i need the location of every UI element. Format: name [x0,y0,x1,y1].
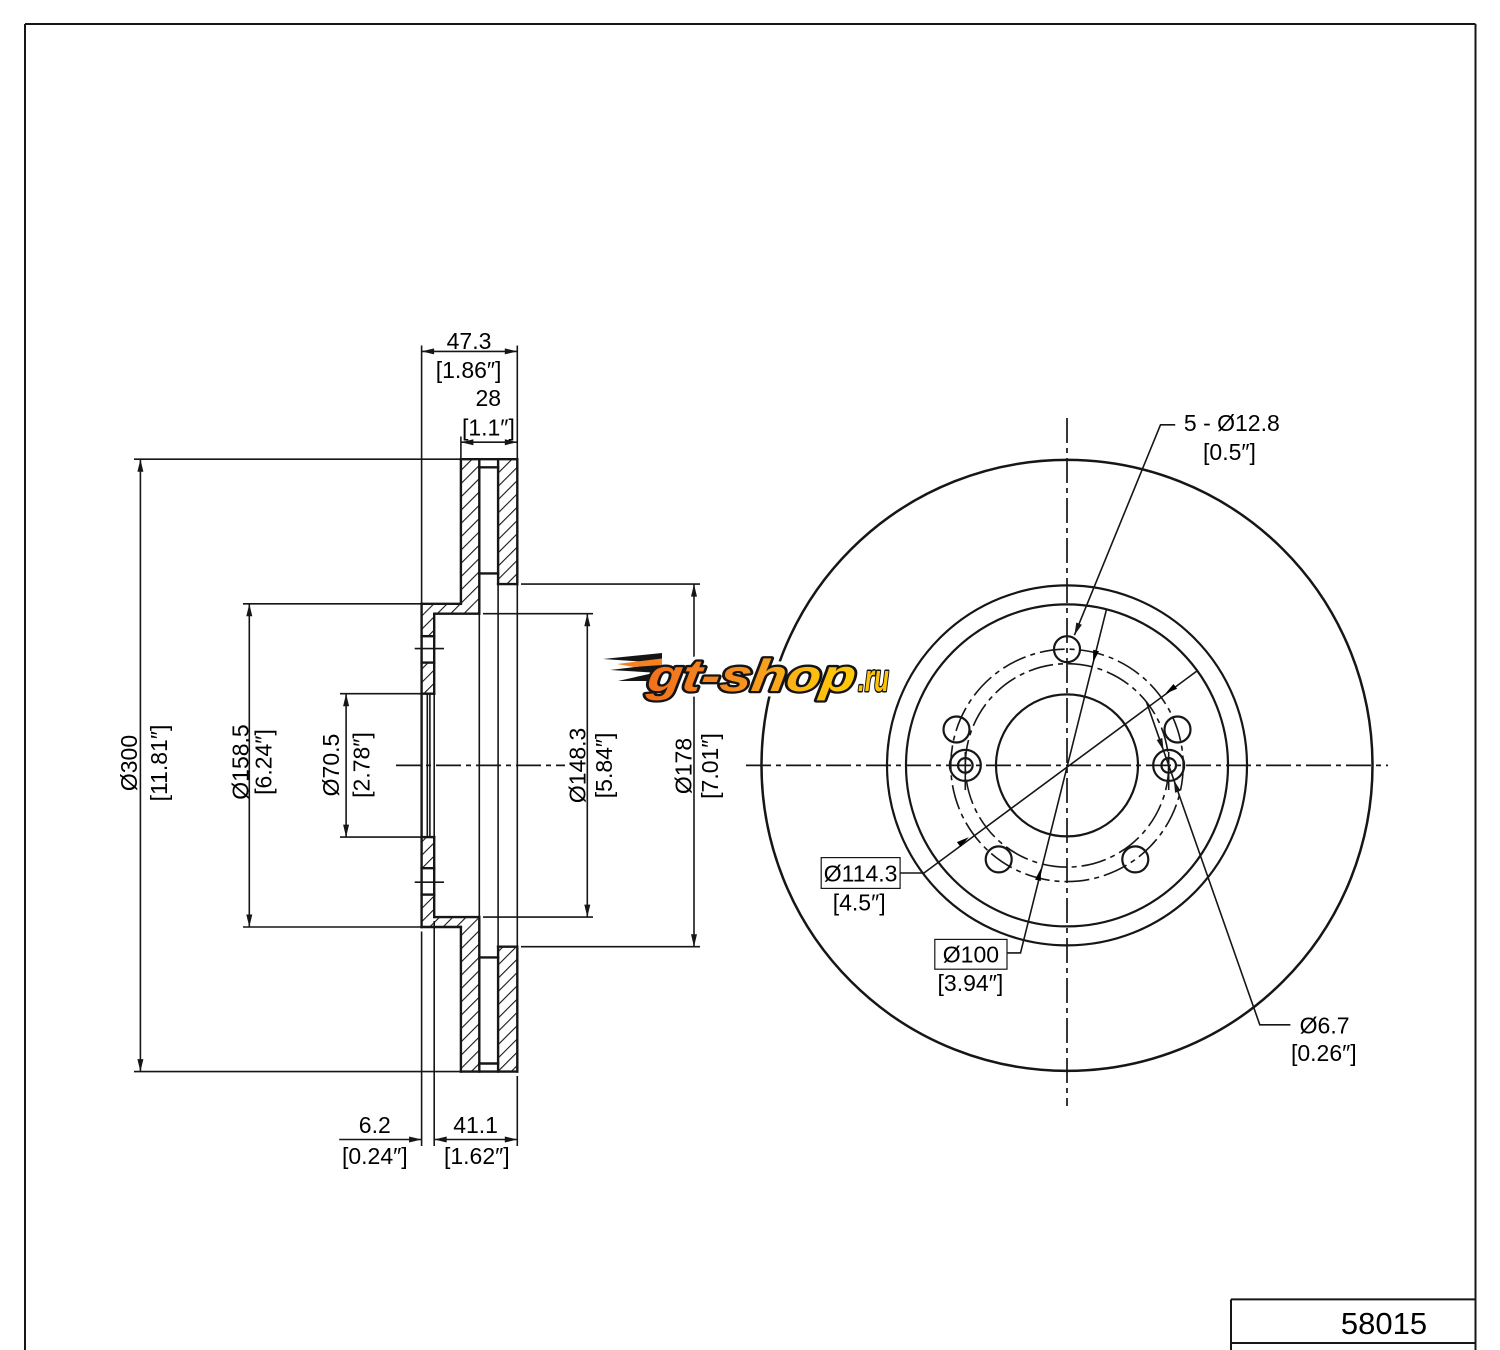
ext line O70.5 top [340,693,422,695]
arrow O70.5 bottom [343,825,349,838]
bolt hole centerline tick (bottom) [415,881,444,883]
arrow O158.5 top [246,604,252,617]
arrow O158.5 bottom [246,915,252,928]
svg-text:[3.94″]: [3.94″] [938,970,1004,996]
arrow O178 bottom [691,934,697,947]
svg-text:Ø178: Ø178 [670,738,696,794]
visible edge: right plate face [516,584,518,947]
arrow leader 5-O12.8 [1074,623,1082,636]
ext line O148.3 bottom [483,916,593,918]
bolt hole lower edge (top) [422,661,435,663]
visible edge: bore chamfer right [429,694,431,837]
arrow 28 right [505,439,518,445]
svg-text:5 - Ø12.8: 5 - Ø12.8 [1184,410,1280,436]
visible edge: vent right wall [497,584,499,947]
ext line O300 top [134,458,461,460]
black speed streaks [603,653,662,681]
svg-text:[7.01″]: [7.01″] [697,733,723,799]
arrow O114.3 lower [957,837,969,847]
svg-text:.ru: .ru [858,658,889,700]
vertical centerline [1066,418,1068,1106]
dim line O158.5 [248,604,250,927]
left plate inner face (bottom) [478,917,480,1072]
hat flange top face [422,603,461,605]
center bore O70.5 [996,694,1138,836]
vent outer edge line (bottom) [479,1062,498,1064]
bolt hole centerline tick (top) [415,648,444,650]
section hatching: hub wall above bolt hole (bottom) [422,895,435,918]
svg-text:gt-shop: gt-shop [643,650,859,701]
circle O158.5 [906,604,1228,926]
arrow O300 bottom [137,1059,143,1072]
bore upper edge [422,693,435,695]
svg-text:[0.26″]: [0.26″] [1291,1040,1357,1066]
svg-text:Ø114.3: Ø114.3 [824,860,898,886]
bolt hole upper edge (top) [422,635,435,637]
section hatching: left friction plate (top) [461,459,479,604]
ext line O178 bottom [521,946,700,948]
small hole left O6.7 counterbore [950,750,981,781]
bolt hole top (90deg) [1054,636,1080,662]
bolt hole upper edge (bottom) [422,893,435,895]
white halo [603,650,889,701]
interior visible edges [427,584,517,947]
svg-text:Ø148.3: Ø148.3 [565,728,591,803]
vent floor (top) [479,572,498,574]
right plate inner face (top) [497,459,499,584]
vent outer edge line (top) [479,466,498,468]
leader O6.7 [1146,702,1290,1025]
svg-text:Ø6.7: Ø6.7 [1300,1012,1350,1038]
arrow 47.3 left [422,348,435,354]
ext line 41.1 right [516,1076,518,1146]
svg-text:[0.24″]: [0.24″] [342,1143,408,1169]
outer diameter edge (top) [461,458,517,460]
dimension lines [140,351,694,1139]
ext line O178 top [521,583,700,585]
flame orange wedge [617,659,662,668]
svg-text:[0.5″]: [0.5″] [1203,439,1256,465]
dimension texts [116,328,723,1169]
arrowheads [137,348,697,1142]
ext line 6.2 right / 41.1 left [433,921,435,1146]
leader 5-O12.8 [1074,425,1175,635]
hat flange bottom face [422,926,461,928]
right plate inner edge (top) [498,583,517,585]
arrow O114.3 upper [1165,684,1177,694]
svg-text:6.2: 6.2 [359,1112,391,1138]
right plate inner edge (bottom) [498,946,517,948]
arrow O300 top [137,459,143,472]
arrow 47.3 right [505,348,518,354]
section hatching: hat skirt band (bottom) [422,917,480,927]
dimension line O114.3 diagonal [900,671,1197,873]
arrow O100 upper [1093,650,1099,663]
arrow O6.7 [1174,780,1181,793]
section hatching: right friction plate (bottom) [498,947,517,1072]
extension lines [134,346,700,1147]
bolt hole 18deg [1165,717,1191,743]
svg-text:[5.84″]: [5.84″] [591,733,617,799]
dim line O148.3 [586,614,588,917]
arrow O6.7 upper [1157,738,1164,751]
bolt hole 306deg [1122,846,1148,872]
section hatching: hub wall below bolt hole (top) [422,663,435,694]
bolt hole 234deg [986,846,1012,872]
arrow 28 left [461,439,474,445]
dim line 28 [461,441,517,443]
svg-text:Ø300: Ø300 [116,735,142,791]
ext line O148.3 top [483,613,593,615]
svg-text:Ø70.5: Ø70.5 [318,734,344,797]
centerline of section [396,764,565,766]
svg-text:[4.5″]: [4.5″] [833,889,886,915]
section outline top half [422,459,518,1071]
arrow 6.2 (outside, pointing right) [409,1137,422,1143]
outer circle O300 [762,460,1373,1071]
section hatching: hat skirt band (top) [422,604,480,614]
arrow 41.1 left [434,1137,447,1143]
arrow O100 lower [1035,868,1041,881]
svg-text:[11.81″]: [11.81″] [146,725,172,802]
dim line O178 [693,584,695,947]
arrow O178 top [691,584,697,597]
dim line 41.1 [434,1139,517,1141]
ext line 47.3 left [421,346,423,604]
ext line 6.2 left [421,932,423,1147]
arrow O70.5 top [343,694,349,707]
circle O100 dash-dot [965,664,1168,867]
watermark logo gt-shop.ru [603,650,889,701]
ext line 47.3/28 right [516,346,518,460]
visible edge: skirt inner radius [478,614,480,917]
left plate outer face (top) [460,459,462,604]
outer diameter edge (bottom) [461,1070,517,1072]
horizontal centerline [746,764,1388,766]
vent floor (bottom) [479,956,498,958]
ext line O158.5 top [243,603,422,605]
hat skirt underside (bottom) [434,916,479,918]
svg-text:58015: 58015 [1341,1306,1427,1341]
hat wall inner face (top) [433,614,435,694]
circle O178 hat outer [887,585,1247,945]
dim line O300 [139,459,141,1071]
ext line O158.5 bottom [243,926,422,928]
section hatching: hub wall above bolt hole (top) [422,614,435,637]
bolt circle O114.3 dash-dot [951,649,1183,881]
small hole left tick [964,752,966,790]
dimension line O100 diagonal [1007,609,1107,953]
svg-text:Ø100: Ø100 [943,942,999,968]
small hole right tick [1168,752,1170,790]
svg-text:[2.78″]: [2.78″] [349,732,375,798]
section hatching: right friction plate (top) [498,459,517,584]
ext line O300 bottom [134,1071,461,1073]
small hole right O6.7 counterbore [1153,750,1184,781]
left plate inner face / vent wall (top) [478,459,480,614]
svg-text:47.3: 47.3 [447,328,492,354]
dim line 6.2 [339,1139,421,1141]
bore lower edge [422,836,435,838]
arrow 41.1 right [505,1137,518,1143]
bolt hole lower edge (bottom) [422,867,435,869]
ext line O70.5 bottom [340,836,422,838]
svg-text:41.1: 41.1 [453,1112,498,1138]
ext line 28 left [460,437,462,460]
label box O100 [935,939,1007,969]
title block [1231,1299,1476,1350]
hat skirt underside (top) [434,613,479,615]
arrow O148.3 bottom [584,905,590,918]
label box O114.3 [821,858,900,889]
svg-text:28: 28 [476,385,502,411]
svg-text:Ø158.5: Ø158.5 [227,724,253,799]
dim line O70.5 [345,694,347,837]
section hatching: hub wall below bolt hole (bottom) [422,837,435,868]
left plate outer face (bottom) [460,927,462,1072]
bolt hole 162deg [944,717,970,743]
right plate outer face (top) [516,459,518,584]
svg-text:[1.1″]: [1.1″] [462,414,515,440]
svg-text:[6.24″]: [6.24″] [251,729,277,795]
right plate outer face (bottom) [516,947,518,1072]
right plate inner face (bottom) [497,947,499,1072]
svg-text:[1.62″]: [1.62″] [444,1143,510,1169]
svg-text:[1.86″]: [1.86″] [436,357,502,383]
outlined gradient text [643,650,889,701]
dim line 47.3 [422,350,518,352]
hat mounting face [420,604,422,927]
hat wall inner face (bottom) [433,837,435,917]
visible edge: hat inner face across bore [433,694,435,837]
arrow O148.3 top [584,614,590,627]
visible edge: bore chamfer left [426,694,428,837]
section hatching: left friction plate (bottom) [461,927,479,1072]
